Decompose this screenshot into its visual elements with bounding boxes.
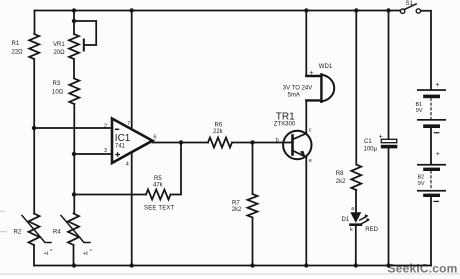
- svg-text:R6: R6: [215, 123, 223, 129]
- svg-text:+: +: [309, 70, 313, 77]
- svg-text:B2: B2: [418, 174, 425, 180]
- svg-text:9V: 9V: [418, 181, 425, 187]
- svg-text:D1: D1: [342, 217, 350, 223]
- svg-text:b: b: [276, 138, 279, 144]
- svg-text:S1: S1: [406, 1, 414, 7]
- svg-text:R8: R8: [336, 171, 344, 177]
- svg-text:R2: R2: [14, 230, 22, 236]
- svg-text:47k: 47k: [153, 183, 164, 189]
- svg-text:R4: R4: [53, 230, 61, 236]
- svg-text:WD1: WD1: [319, 64, 333, 70]
- svg-text:VR1: VR1: [53, 42, 65, 48]
- svg-text:+: +: [379, 134, 383, 141]
- svg-text:C1: C1: [364, 139, 372, 145]
- svg-text:22k: 22k: [213, 129, 224, 135]
- svg-text:+t: +t: [44, 251, 49, 257]
- svg-text:ZTX300: ZTX300: [274, 122, 296, 128]
- svg-text:3: 3: [104, 148, 107, 154]
- svg-text:+: +: [436, 151, 440, 158]
- svg-text:4: 4: [126, 161, 129, 167]
- svg-text:SeekIC.com: SeekIC.com: [388, 262, 458, 276]
- svg-text:c: c: [309, 127, 312, 133]
- svg-text:B1: B1: [416, 102, 423, 108]
- svg-text:9V: 9V: [416, 108, 423, 114]
- svg-text:k: k: [350, 227, 353, 233]
- svg-text:2k2: 2k2: [232, 207, 242, 213]
- svg-text:+t: +t: [83, 251, 88, 257]
- svg-text:SEE TEXT: SEE TEXT: [144, 206, 175, 212]
- svg-text:R1: R1: [12, 41, 20, 47]
- svg-text:6: 6: [154, 134, 157, 140]
- svg-text:10Ω: 10Ω: [52, 90, 64, 96]
- svg-text:100µ: 100µ: [364, 146, 378, 152]
- svg-text:2: 2: [104, 123, 107, 129]
- svg-text:R7: R7: [232, 201, 240, 207]
- svg-text:7: 7: [127, 121, 130, 127]
- svg-text:2k2: 2k2: [336, 179, 346, 185]
- svg-text:e: e: [309, 158, 312, 164]
- svg-text:5mA: 5mA: [288, 92, 300, 98]
- svg-text:20Ω: 20Ω: [54, 50, 66, 56]
- svg-text:R3: R3: [53, 81, 61, 87]
- svg-text:R5: R5: [154, 176, 162, 182]
- svg-text:3V TO 24V: 3V TO 24V: [283, 86, 312, 92]
- svg-text:741: 741: [115, 143, 126, 149]
- svg-text:+: +: [435, 82, 439, 89]
- svg-text:22Ω: 22Ω: [12, 50, 24, 56]
- svg-text:RED: RED: [365, 227, 378, 233]
